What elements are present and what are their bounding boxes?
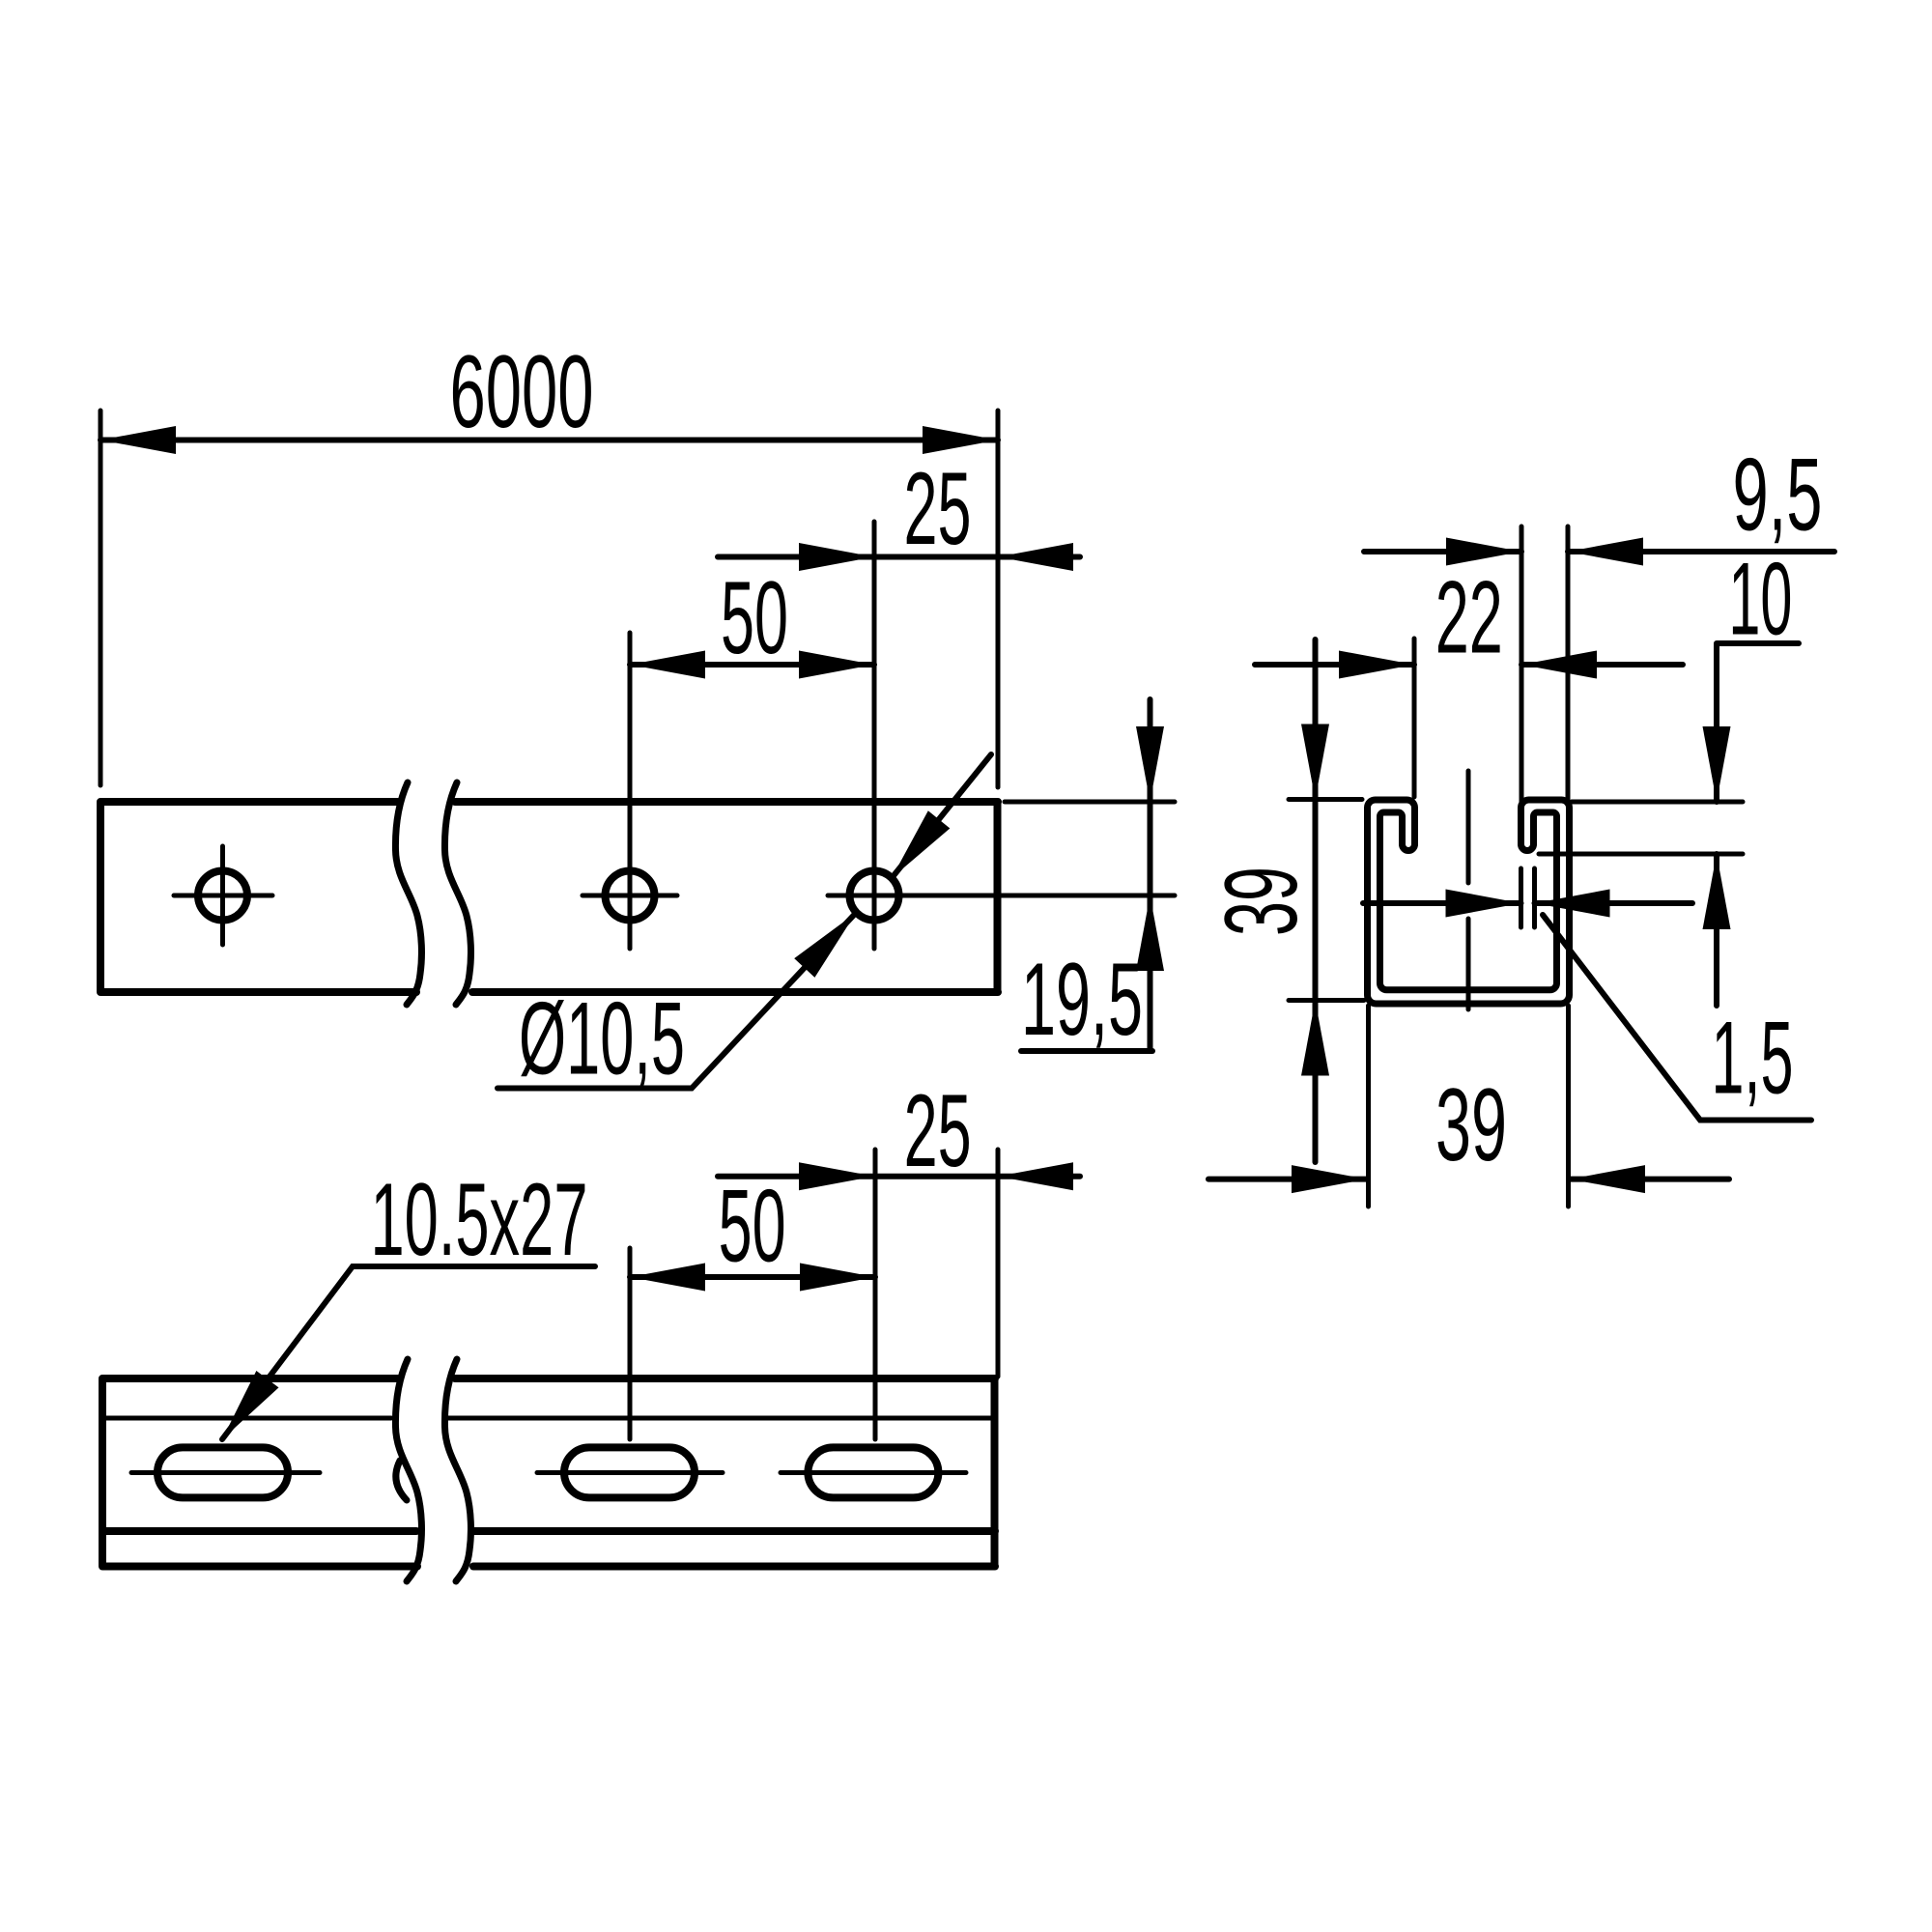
extension line 19,5 top at rail edge [1005,800,1175,805]
hole H3 centerline horizontal extended as 19,5 extension [828,894,1175,898]
extension slot3 center [873,1150,878,1439]
dimension 39 bottom [1208,1006,1729,1207]
dimension 19,5 [1021,699,1164,1057]
break line S1 bottom view [395,1359,421,1581]
slot S1 centerline [131,1470,320,1475]
dimension 10 [1539,541,1799,1006]
extension lines 9,5 / 22 [1414,526,1568,802]
svg-text:10: 10 [1728,541,1792,657]
slot S2 centerline [537,1470,723,1475]
dimension 9,5 [1364,437,1834,566]
rail bottom view inner thin line [102,1416,995,1421]
section left lip cap [1403,844,1415,851]
break line S2 top view [444,782,470,1005]
dimension 50 top [630,559,874,679]
hole H2 circle [606,871,655,921]
rail bottom view outline [102,1378,995,1567]
hole H2 vertical centerline / extension for 50 [628,633,633,949]
break line S1 top view [395,782,421,1005]
svg-text:19,5: 19,5 [1021,941,1143,1057]
svg-text:25: 25 [904,450,972,566]
label diameter 10,5 with leader [497,754,991,1096]
svg-text:1,5: 1,5 [1712,1000,1794,1116]
section outer contour [1368,800,1570,1004]
rail side view outline (top view) [100,802,998,992]
dimension 1,5 [1363,868,1811,1121]
slot S2 [564,1447,695,1497]
break line S2 bottom view [444,1359,470,1581]
svg-text:Ø10,5: Ø10,5 [519,980,685,1096]
hole H2 centerline horizontal [582,894,677,898]
svg-text:6000: 6000 [450,333,594,449]
partial slot cap at break [396,1461,407,1500]
svg-text:10.5x27: 10.5x27 [371,1161,588,1277]
section vertical centerline [1466,771,1471,1009]
dimension 39 vertical [1203,639,1364,1162]
dimension 25 bottom [718,1072,1080,1190]
svg-text:50: 50 [719,1168,786,1284]
dimension 22 [1255,558,1683,678]
hole H3 vertical centerline / extension for 25 [872,522,877,949]
extension slot2 center [628,1248,633,1439]
svg-text:25: 25 [904,1072,972,1188]
extension rail right end bottom view [996,1150,1001,1377]
extension line left end 6000 [99,411,103,785]
dimension 25 top [718,450,1080,571]
hole H3 circle [850,871,899,921]
slot S3 [808,1447,938,1497]
slot S3 centerline [781,1470,966,1475]
label 10.5x27 with leader [211,1161,595,1448]
svg-text:50: 50 [721,559,788,675]
hole H1 centerlines [174,846,272,945]
svg-text:22: 22 [1435,558,1503,674]
svg-text:39: 39 [1435,1066,1507,1182]
section inner contour [1380,812,1557,990]
dimension 50 bottom [630,1168,875,1292]
dimension 6000 [100,333,998,454]
section right lip cap [1521,844,1534,851]
slot S1 [157,1447,288,1497]
svg-text:9,5: 9,5 [1733,437,1823,553]
svg-text:39: 39 [1203,867,1319,936]
extension line right end 6000/25 [996,411,1001,787]
hole H1 circle [198,871,247,921]
